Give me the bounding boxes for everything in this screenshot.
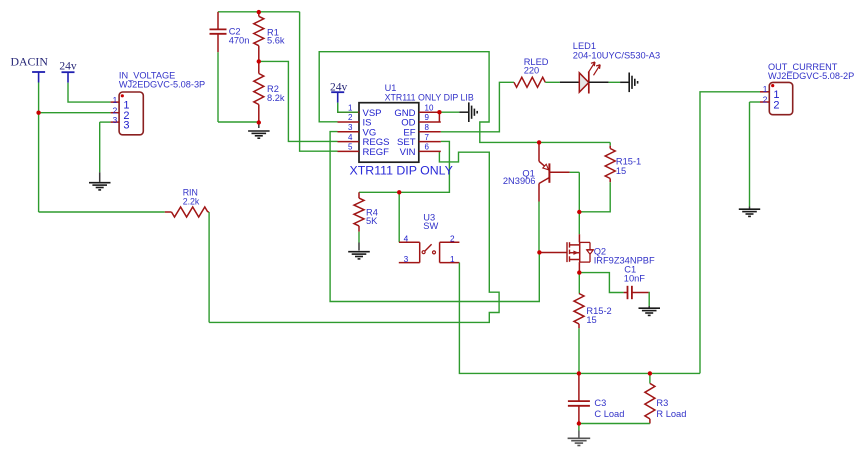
- svg-text:1: 1: [450, 254, 455, 264]
- svg-text:8.2k: 8.2k: [267, 93, 285, 103]
- svg-text:1: 1: [763, 84, 768, 94]
- svg-text:220: 220: [524, 66, 540, 76]
- svg-text:R Load: R Load: [656, 409, 686, 419]
- svg-text:R3: R3: [656, 398, 668, 408]
- svg-text:2: 2: [773, 99, 779, 111]
- svg-text:10nF: 10nF: [624, 273, 646, 283]
- svg-text:U1: U1: [385, 83, 397, 93]
- svg-text:24v: 24v: [59, 60, 77, 72]
- svg-text:15: 15: [586, 315, 596, 325]
- svg-text:C Load: C Load: [594, 409, 624, 419]
- svg-text:1: 1: [113, 95, 118, 105]
- svg-text:2.2k: 2.2k: [183, 197, 200, 207]
- svg-text:2: 2: [450, 233, 455, 243]
- svg-text:4: 4: [404, 233, 409, 243]
- svg-text:5K: 5K: [366, 216, 378, 226]
- svg-text:204-10UYC/S530-A3: 204-10UYC/S530-A3: [573, 50, 660, 60]
- svg-text:3: 3: [123, 119, 129, 131]
- svg-text:VIN: VIN: [400, 147, 416, 158]
- svg-text:1: 1: [348, 103, 353, 112]
- svg-text:5: 5: [348, 143, 353, 152]
- svg-text:8: 8: [425, 123, 430, 132]
- svg-text:2: 2: [348, 113, 353, 122]
- svg-text:2N3906: 2N3906: [503, 176, 536, 186]
- svg-text:WJ2EDGVC-5.08-2P: WJ2EDGVC-5.08-2P: [768, 71, 854, 81]
- svg-text:C3: C3: [594, 398, 606, 408]
- svg-text:24v: 24v: [330, 82, 348, 94]
- svg-text:470n: 470n: [229, 35, 250, 45]
- svg-text:WJ2EDGVC-5.08-3P: WJ2EDGVC-5.08-3P: [119, 80, 205, 90]
- svg-text:5.6k: 5.6k: [267, 35, 285, 45]
- svg-text:10: 10: [425, 103, 434, 112]
- svg-text:2: 2: [763, 94, 768, 104]
- svg-text:9: 9: [425, 113, 430, 122]
- svg-text:XTR111 DIP ONLY: XTR111 DIP ONLY: [350, 164, 453, 178]
- svg-text:SW: SW: [423, 221, 438, 231]
- svg-text:6: 6: [425, 143, 430, 152]
- svg-text:4: 4: [348, 133, 353, 142]
- svg-text:3: 3: [404, 254, 409, 264]
- svg-text:7: 7: [425, 133, 430, 142]
- svg-text:REGF: REGF: [363, 147, 390, 158]
- svg-text:DACIN: DACIN: [11, 55, 49, 69]
- svg-text:3: 3: [113, 115, 118, 125]
- svg-text:3: 3: [348, 123, 353, 132]
- svg-text:15: 15: [616, 166, 626, 176]
- svg-text:XTR111 ONLY DIP LIB: XTR111 ONLY DIP LIB: [385, 93, 474, 103]
